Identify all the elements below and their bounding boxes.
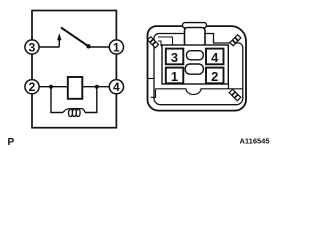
connector outer body: [148, 26, 247, 111]
switch contact dot: [86, 44, 90, 48]
corner clip bottom-right: [229, 89, 241, 101]
relay internal circuit box: [32, 11, 116, 128]
svg-text:4: 4: [113, 80, 120, 94]
cavity box 4: [206, 49, 224, 65]
corner clip top-left: [147, 37, 158, 48]
terminal 3: [25, 40, 39, 54]
resistor box: [68, 77, 83, 99]
center slot upper: [187, 51, 204, 60]
switch actuator riser: [58, 38, 60, 48]
parallel branch wire left: [51, 88, 63, 113]
cavity box 1: [166, 68, 184, 84]
svg-text:4: 4: [211, 50, 219, 65]
guide tab top center: [183, 23, 207, 28]
tray step bottom-left: [151, 89, 156, 98]
center slot lower: [185, 64, 203, 74]
svg-text:A116545: A116545: [239, 137, 269, 146]
svg-text:3: 3: [171, 50, 178, 65]
corner clip top-right: [230, 35, 241, 46]
cavity box 2: [206, 68, 224, 84]
terminal 4: [109, 80, 123, 94]
svg-text:2: 2: [211, 69, 218, 84]
cavity box 3: [166, 49, 184, 65]
junction dot right: [95, 85, 99, 89]
wire from terminal 3 to switch riser: [39, 46, 59, 48]
parallel branch wire right: [85, 88, 97, 113]
guide tab body: [185, 28, 206, 48]
switch arrow head: [57, 33, 62, 40]
svg-text:1: 1: [113, 40, 120, 54]
svg-text:3: 3: [29, 40, 36, 54]
svg-text:1: 1: [171, 69, 178, 84]
tray plate with center notch: [156, 89, 243, 95]
terminal 1: [109, 40, 123, 54]
keyway step left of tab: [158, 37, 173, 46]
svg-text:P: P: [8, 137, 15, 148]
terminal 2: [25, 80, 39, 94]
svg-text:2: 2: [29, 80, 36, 94]
junction dot left: [49, 85, 53, 89]
tray hook bottom-right of block: [228, 84, 230, 89]
switch blade: [61, 28, 89, 47]
relay coil: [63, 109, 85, 117]
pin housing block: [162, 45, 228, 84]
wire from contact dot to terminal 1: [89, 46, 110, 48]
left side weld tick: [148, 78, 155, 80]
wire terminal 2 to terminal 4: [39, 86, 110, 88]
connector inner rim: [154, 34, 243, 105]
